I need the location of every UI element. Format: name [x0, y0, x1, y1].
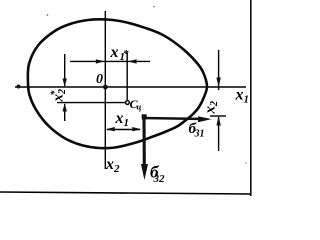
right dimension x2 lower arrowhead (up) — [216, 116, 220, 126]
right dimension x2 extension line — [210, 115, 226, 117]
bottom rule — [0, 192, 251, 194]
dot at left end of axis x1 — [17, 85, 21, 89]
origin O point — [103, 85, 108, 90]
dimension x1* right arrowhead — [128, 59, 137, 63]
label x2 right (rotated) — [203, 101, 221, 115]
paper speck — [47, 14, 49, 16]
svg-text:x2: x2 — [105, 156, 120, 175]
paper speck — [153, 6, 155, 8]
svg-text:x1: x1 — [115, 110, 130, 129]
dimension x2* upper line — [64, 54, 66, 86]
paper speck — [245, 162, 246, 163]
dimension x1 double arrow line (bottom) — [107, 129, 140, 131]
right dimension x2 lower line — [218, 117, 220, 151]
stress corner junction — [142, 114, 147, 119]
dimension x1* line — [70, 60, 150, 62]
svg-text:x2: x2 — [203, 101, 221, 115]
svg-text:0: 0 — [96, 72, 103, 87]
dimension x2* lower arrowhead (up) — [63, 103, 67, 112]
dimension x1 left arrowhead — [106, 127, 115, 131]
horizontal extension line through Cu — [57, 102, 125, 104]
stress vector sigma32 arrowhead — [141, 164, 148, 180]
dimension x2* upper arrowhead (down) — [63, 79, 67, 88]
dimension x2* lower line — [64, 104, 66, 121]
svg-text:Cц: Cц — [130, 97, 142, 112]
svg-text:x2*: x2* — [49, 89, 68, 103]
label x2* (rotated) — [49, 89, 68, 103]
vertical extension line through Cu — [126, 53, 128, 101]
axis x2 (vertical through O) — [104, 11, 106, 169]
stress vector sigma32 shaft — [142, 115, 145, 166]
svg-text:x1: x1 — [235, 87, 250, 106]
dimension x1* left arrowhead — [96, 59, 105, 63]
right rule — [250, 0, 252, 196]
right dimension x2 upper line — [218, 50, 220, 90]
stress vector sigma31 shaft — [143, 118, 205, 119]
dimension x1 right arrowhead — [132, 127, 141, 131]
centroid point Cu (open circle) — [126, 101, 130, 105]
svg-text:б31: б31 — [189, 121, 205, 140]
section outline (egg-shaped cross-section) — [28, 19, 207, 148]
svg-text:x1*: x1* — [110, 44, 130, 63]
stress vector sigma31 arrowhead — [198, 116, 212, 122]
axis x1 (horizontal through O) — [15, 86, 246, 88]
svg-text:б32: б32 — [150, 163, 165, 186]
right dimension x2 upper arrowhead (down) — [216, 78, 220, 88]
